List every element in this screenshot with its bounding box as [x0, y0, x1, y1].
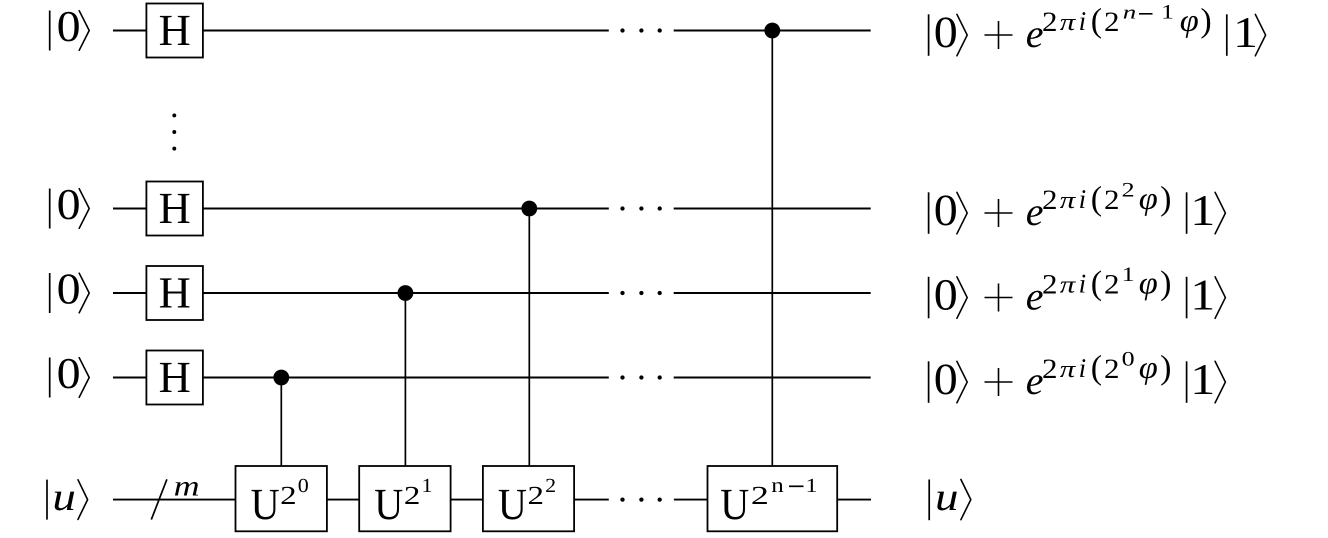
node output q3: |0&gt;+e^2pi i(2^0 phi)|1&gt; — [928, 361, 930, 403]
svg-text:n: n — [1123, 3, 1137, 24]
svg-text:U: U — [251, 479, 280, 529]
svg-text:e: e — [1026, 189, 1044, 234]
svg-text:i: i — [1079, 184, 1087, 214]
svg-text:): ) — [1160, 350, 1171, 387]
svg-text:π: π — [1060, 357, 1077, 383]
svg-text:0: 0 — [934, 270, 958, 320]
svg-text:2: 2 — [1104, 269, 1120, 300]
svg-text:2: 2 — [1042, 7, 1058, 38]
control dot q3 — [273, 370, 289, 386]
wire q3 left stub — [113, 377, 146, 379]
wire q0 right — [674, 30, 871, 32]
node output q1: |0&gt;+e^2pi i(2^2 phi)|1&gt; — [928, 192, 930, 234]
svg-text:e: e — [1026, 358, 1044, 403]
svg-text:e: e — [1026, 11, 1044, 56]
svg-text:u: u — [935, 474, 959, 519]
U gate U^2^2 — [483, 466, 574, 531]
svg-text:2: 2 — [1104, 7, 1120, 38]
U gate U^2^n-1 — [708, 466, 838, 531]
svg-text:π: π — [1060, 188, 1077, 214]
cdots on wire q2 — [620, 291, 624, 295]
wire control q3 to U^2^0 — [280, 378, 282, 467]
cdots on wire q0 — [620, 28, 624, 32]
wire target right — [837, 499, 871, 501]
control dot q1 — [521, 201, 537, 217]
svg-text:1: 1 — [1190, 186, 1215, 235]
svg-text:2: 2 — [1104, 185, 1120, 216]
node output q0: |0&gt;+e^2pi i(2^n-1 phi)|1&gt; — [928, 14, 930, 56]
svg-text:0: 0 — [298, 475, 309, 497]
svg-text:1: 1 — [1233, 8, 1258, 57]
node input |0&gt; q0 — [49, 11, 51, 51]
svg-text:φ: φ — [1139, 180, 1158, 216]
svg-text:U: U — [720, 479, 749, 529]
svg-text:0: 0 — [934, 185, 958, 235]
svg-text:i: i — [1079, 6, 1087, 36]
svg-text:1: 1 — [422, 475, 433, 497]
svg-text:): ) — [1200, 3, 1211, 40]
svg-text:2: 2 — [1122, 180, 1135, 202]
svg-text:U: U — [374, 479, 403, 529]
node input |0&gt; q1 — [49, 189, 51, 229]
svg-text:0: 0 — [57, 2, 81, 51]
cdots on wire target — [620, 497, 624, 501]
wire q1 left stub — [113, 208, 146, 210]
svg-text:2: 2 — [545, 475, 556, 497]
svg-text:1: 1 — [1190, 355, 1215, 404]
svg-text:1: 1 — [1161, 2, 1174, 24]
H gate row q3 — [146, 351, 203, 405]
svg-text:2: 2 — [1042, 269, 1058, 300]
svg-text:(: ( — [1091, 265, 1102, 302]
svg-text:0: 0 — [934, 354, 958, 404]
wire q1 mid — [203, 208, 609, 210]
wire target after U3 — [574, 499, 609, 501]
bus slash on target wire — [151, 479, 167, 519]
svg-text:1: 1 — [1190, 271, 1215, 320]
svg-text:1: 1 — [806, 475, 818, 497]
svg-text:0: 0 — [57, 264, 81, 313]
wire q3 mid — [203, 377, 609, 379]
wire control q0 to U^2^n-1 — [771, 31, 773, 467]
svg-text:(: ( — [1091, 350, 1102, 387]
wire q1 right — [674, 208, 871, 210]
wire target before Un — [674, 499, 709, 501]
svg-text:m: m — [174, 470, 200, 502]
svg-text:U: U — [498, 479, 527, 529]
wire q0 mid — [203, 30, 609, 32]
node output |u&gt; target — [928, 480, 930, 521]
control dot q0 — [764, 23, 780, 39]
node input |u&gt; target — [46, 480, 48, 520]
node input |0&gt; q2 — [49, 273, 51, 313]
wire target between U2-U3 — [451, 499, 484, 501]
U gate U^2^1 — [359, 466, 450, 531]
svg-text:): ) — [1160, 265, 1171, 302]
svg-text:(: ( — [1091, 181, 1102, 218]
svg-text:2: 2 — [1042, 354, 1058, 385]
svg-text:2: 2 — [404, 481, 421, 510]
cdots on wire q1 — [620, 206, 624, 210]
wire q0 left stub — [113, 30, 146, 32]
wire target between U1-U2 — [327, 499, 360, 501]
svg-text:2: 2 — [1042, 185, 1058, 216]
svg-text:H: H — [159, 183, 191, 233]
svg-text:i: i — [1079, 269, 1087, 299]
svg-text:2: 2 — [751, 481, 769, 510]
H gate row q2 — [146, 266, 203, 320]
svg-text:φ: φ — [1139, 264, 1158, 300]
node output q2: |0&gt;+e^2pi i(2^1 phi)|1&gt; — [928, 277, 930, 319]
svg-text:0: 0 — [1122, 349, 1135, 371]
svg-text:π: π — [1060, 10, 1077, 36]
svg-text:H: H — [159, 5, 191, 55]
svg-text:0: 0 — [934, 7, 958, 57]
svg-text:1: 1 — [1122, 264, 1135, 286]
svg-text:φ: φ — [1139, 349, 1158, 385]
svg-text:2: 2 — [1104, 354, 1120, 385]
H gate row q0 — [146, 4, 203, 58]
H gate row q1 — [146, 182, 203, 236]
U gate U^2^0 — [236, 466, 327, 531]
wire q2 left stub — [113, 292, 146, 294]
svg-text:u: u — [52, 474, 76, 519]
wire target left — [113, 499, 237, 501]
svg-text:2: 2 — [280, 481, 297, 510]
svg-text:2: 2 — [528, 481, 545, 510]
wire control q2 to U^2^1 — [404, 293, 406, 467]
cdots on wire q3 — [620, 375, 624, 379]
svg-text:): ) — [1160, 181, 1171, 218]
svg-text:e: e — [1026, 274, 1044, 319]
svg-text:φ: φ — [1180, 2, 1199, 38]
svg-text:n: n — [771, 473, 784, 497]
svg-text:H: H — [159, 352, 191, 402]
control dot q2 — [398, 285, 414, 301]
svg-text:0: 0 — [57, 349, 81, 398]
svg-text:0: 0 — [57, 180, 81, 229]
svg-text:(: ( — [1091, 3, 1102, 40]
node input |0&gt; q3 — [49, 358, 51, 398]
wire q2 right — [674, 292, 871, 294]
minus in U^2^n-1 exponent — [789, 485, 804, 487]
wire control q1 to U^2^2 — [528, 209, 530, 467]
wire q3 right — [674, 377, 871, 379]
vdots between q0 and q1 — [172, 113, 176, 117]
svg-text:i: i — [1079, 353, 1087, 383]
svg-text:π: π — [1060, 273, 1077, 299]
svg-text:H: H — [159, 268, 191, 318]
wire q2 mid — [203, 292, 609, 294]
